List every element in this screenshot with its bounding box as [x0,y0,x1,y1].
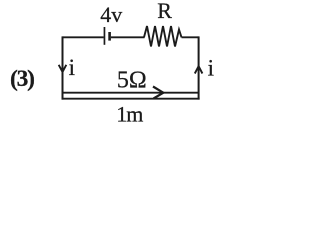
wire: right vertical [198,36,200,99]
svg-text:i: i [208,55,214,80]
resistor R zigzag [144,26,182,47]
wire: resistor to top-right corner [182,36,199,38]
wire: top-left horizontal segment [63,36,104,38]
svg-text:(3): (3) [10,66,34,92]
wire: left vertical [62,36,64,99]
svg-text:4v: 4v [100,2,122,27]
svg-text:i: i [69,55,75,80]
current arrowhead left (down) [59,65,67,72]
bottom rod lower line [62,98,200,100]
svg-text:R: R [157,0,172,23]
battery B1 short plate [108,32,111,41]
svg-text:5Ω: 5Ω [117,67,147,93]
wire: battery to resistor [111,36,145,38]
bottom rod upper line [63,92,199,94]
battery B1 long plate [104,27,106,45]
svg-text:1m: 1m [116,101,143,126]
current direction chevron on rod [153,87,163,99]
current arrowhead right (up) [195,66,203,73]
